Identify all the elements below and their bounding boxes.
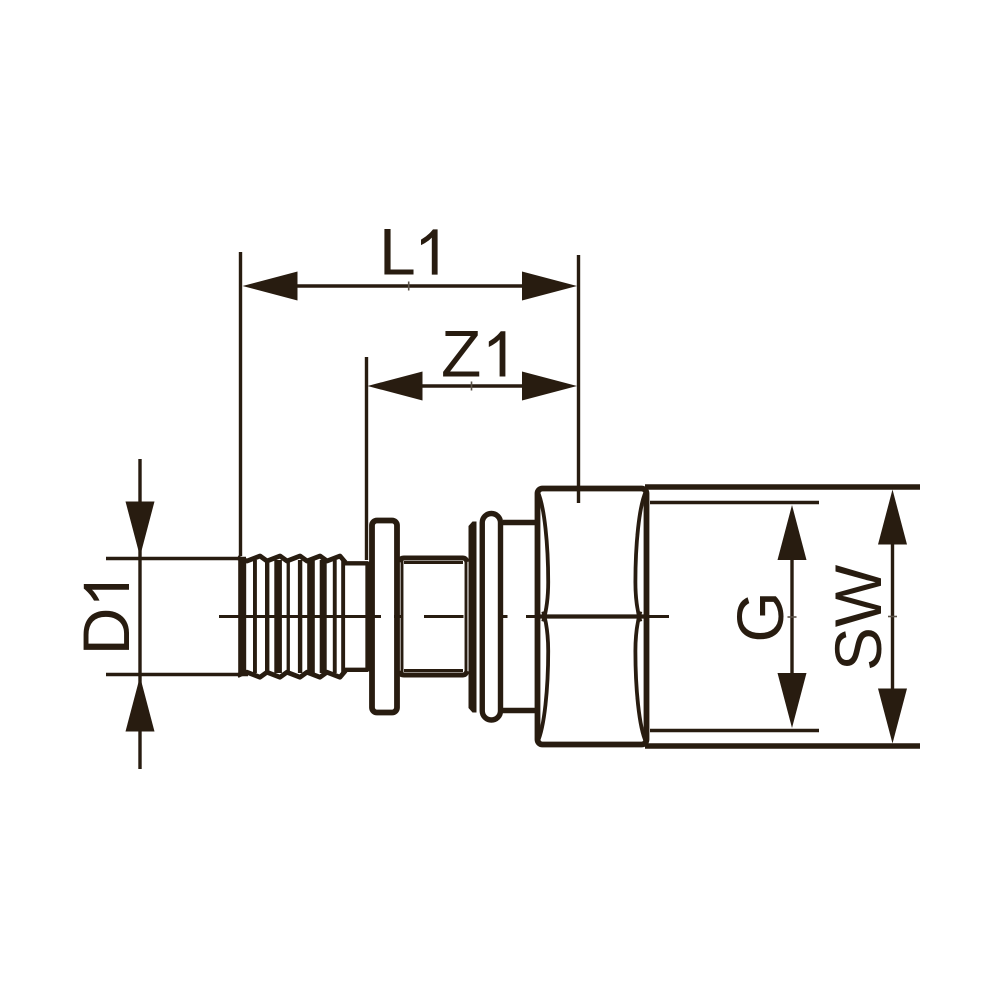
dimension SW lower arrowhead <box>878 689 907 744</box>
spigot neck top edge <box>344 561 368 565</box>
dimension G upper arrowhead <box>778 505 807 560</box>
groove neck bottom edge <box>399 671 467 675</box>
seal flange plate <box>469 522 477 713</box>
svg-text:SW: SW <box>821 564 895 671</box>
groove neck top edge <box>399 558 467 562</box>
collar flange <box>372 521 397 713</box>
svg-text:D: D <box>69 608 143 656</box>
spigot neck right step face <box>365 562 369 672</box>
centerline <box>219 615 669 618</box>
dimension D1 line <box>138 459 141 769</box>
spigot neck bottom edge <box>344 668 368 672</box>
dimension D1 extension line bottom <box>106 673 248 676</box>
spigot left end face <box>238 558 246 675</box>
dimension Z1 arrowhead right <box>522 372 577 401</box>
dimension D1 extension line top <box>106 557 246 560</box>
dimension SW upper arrowhead <box>878 490 907 545</box>
spigot thread crest top edge <box>238 556 346 563</box>
dimension D1 upper arrowhead <box>126 502 155 557</box>
dimension G line <box>790 550 793 685</box>
union nut outline <box>538 489 647 745</box>
dimension G extension line top <box>650 501 819 504</box>
union nut left chamfer arc lower <box>538 612 549 743</box>
o-ring capsule <box>482 514 500 721</box>
groove neck top relief line <box>404 561 463 564</box>
svg-text:L: L <box>379 215 416 289</box>
dimension Z1 line <box>410 384 535 387</box>
svg-text:Z: Z <box>441 317 481 391</box>
spigot thread crest bottom edge <box>238 671 346 678</box>
dimension Z1 extension line left <box>365 357 368 560</box>
groove neck right fillet line <box>465 560 468 673</box>
union nut hex mid edge <box>536 614 648 618</box>
body top edge <box>645 484 920 489</box>
dimension L1 extension line right <box>577 255 580 503</box>
union nut right chamfer arc upper <box>635 491 646 622</box>
dimension G extension line bottom <box>650 729 819 732</box>
union nut right chamfer arc lower <box>635 612 646 743</box>
dimension L1 extension line left <box>239 252 242 556</box>
sleeve spacer bottom edge <box>503 708 537 713</box>
dimension Z1 arrowhead left <box>368 372 423 401</box>
dimension SW line <box>891 540 894 692</box>
spigot thread ribs <box>253 560 345 673</box>
dimension L1 arrowhead left <box>243 272 298 301</box>
dimension Z1 label <box>441 317 505 391</box>
svg-text:G: G <box>723 591 797 642</box>
dimension L1 label <box>379 215 438 289</box>
dimension G lower arrowhead <box>778 673 807 728</box>
union nut left chamfer arc upper <box>538 491 549 622</box>
dimension D1 lower arrowhead <box>126 677 155 732</box>
dimension L1 line <box>285 284 535 287</box>
sleeve spacer top edge <box>503 520 537 525</box>
body bottom edge <box>645 743 920 748</box>
dimension L1 arrowhead right <box>522 272 577 301</box>
groove neck bottom relief line <box>404 669 463 672</box>
groove neck left fillet line <box>401 560 404 673</box>
dimension line midpoint ticks <box>409 282 897 618</box>
dimension D1 label <box>69 584 143 655</box>
